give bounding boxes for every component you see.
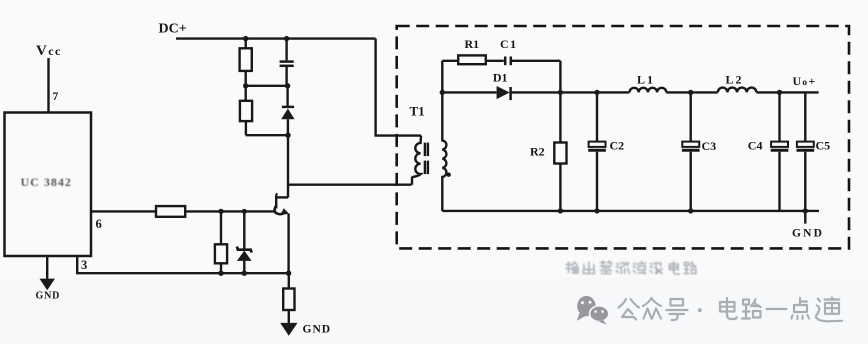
- wire drain to transformer primary bottom: [288, 183, 412, 185]
- watermark char 一: [767, 308, 787, 310]
- svg-text:7: 7: [53, 91, 59, 103]
- svg-text:Vcc: Vcc: [36, 43, 62, 59]
- wire DC+ rail: [176, 37, 376, 39]
- capacitor C3: [682, 92, 700, 210]
- caption char 流: [616, 263, 629, 274]
- node gate branch junction: [218, 209, 223, 214]
- node C4 top: [777, 90, 782, 95]
- resistor R1: [458, 55, 486, 64]
- wire clamp node to drain: [287, 135, 289, 197]
- node clamp bottom junction: [285, 133, 290, 138]
- wire C1 to right drop: [511, 60, 560, 62]
- wire clamp middle node: [246, 85, 288, 87]
- wire rail L2 to output: [756, 91, 818, 93]
- wire snubber right drop: [559, 61, 561, 93]
- node rail clamp-resistor junction: [243, 36, 248, 41]
- watermark char 电: [726, 298, 728, 315]
- wire R2 bottom lead: [559, 164, 561, 211]
- wire clamp diode bottom lead: [287, 119, 289, 135]
- wire gate resistor to transistor gate: [185, 210, 276, 212]
- wire pulldown resistor bottom lead: [220, 263, 222, 273]
- wire clamp cap top lead: [285, 39, 287, 61]
- wire snubber left: [441, 61, 443, 93]
- caption 输出整流滤波电路 (blurred): [566, 261, 696, 274]
- watermark dot: [698, 308, 702, 312]
- wire clamp resistor B bottom lead: [245, 121, 247, 135]
- node rail clamp-cap junction: [284, 36, 289, 41]
- watermark strip tint: [0, 278, 868, 344]
- wire zener bottom lead: [243, 261, 245, 273]
- svg-text:C3: C3: [702, 139, 717, 153]
- inductor L1: [630, 88, 667, 93]
- node C2 top: [594, 90, 599, 95]
- wire secondary top to D1: [442, 91, 496, 93]
- node bottom R2: [558, 208, 563, 213]
- node bottom C3: [688, 208, 693, 213]
- svg-text:3: 3: [81, 258, 87, 272]
- node zener-bottom junction: [242, 271, 247, 276]
- wire R1 to C1: [486, 60, 504, 62]
- caption char 整: [600, 261, 612, 274]
- node zener top junction: [242, 209, 247, 214]
- caption char 出: [583, 262, 594, 274]
- capacitor clamp: [280, 60, 294, 63]
- wire clamp resistor A top lead: [244, 39, 246, 49]
- node source junction: [286, 271, 291, 276]
- svg-text:C4: C4: [748, 139, 763, 153]
- node clamp mid right: [285, 83, 290, 88]
- resistor gate series: [156, 206, 185, 217]
- wire snubber to R1: [442, 60, 458, 62]
- wire clamp resistor B top lead: [244, 86, 246, 101]
- wire source resistor bottom lead: [288, 310, 290, 323]
- wire clamp resistor A bottom lead: [244, 71, 246, 86]
- resistor source sense: [283, 289, 294, 311]
- wire clamp bottom node: [246, 134, 288, 136]
- wire clamp cap bottom lead: [285, 67, 287, 86]
- svg-text:DC+: DC+: [159, 22, 187, 37]
- resistor clamp B: [240, 101, 252, 121]
- node C3 top: [688, 90, 693, 95]
- watermark char 号: [671, 299, 684, 306]
- caption char 电: [670, 262, 680, 275]
- svg-text:GND: GND: [792, 228, 824, 240]
- caption char 波: [650, 263, 662, 274]
- ground arrow under U1: [40, 279, 56, 291]
- wire DC+ drop to transformer primary: [376, 39, 421, 136]
- diode clamp: [282, 106, 294, 109]
- ground arrow bottom: [280, 323, 297, 336]
- svg-text:R1: R1: [465, 37, 480, 51]
- svg-text:GND: GND: [303, 324, 332, 336]
- node pulldown-bottom junction: [218, 271, 223, 276]
- inductor L2: [718, 88, 757, 93]
- node D1 cathode junction: [558, 90, 563, 95]
- diode D1: [497, 86, 510, 99]
- wire rail L1 to L2: [666, 91, 718, 93]
- watermark char 点: [800, 298, 807, 305]
- watermark char 众: [643, 298, 652, 306]
- watermark text 公众号·电路一点通: [619, 298, 843, 322]
- caption char 滤: [633, 262, 646, 274]
- caption char 输: [566, 262, 578, 273]
- node clamp mid left: [243, 83, 248, 88]
- svg-text:6: 6: [96, 217, 102, 231]
- op-amp U1 UC3842 controller box: [5, 113, 92, 257]
- svg-text:C1: C1: [500, 37, 518, 51]
- capacitor C2: [588, 92, 606, 210]
- watermark char 路: [743, 300, 750, 312]
- resistor gate pulldown: [215, 244, 227, 263]
- capacitor C5: [797, 92, 815, 223]
- zener diode gate clamp: [237, 247, 252, 253]
- node bottom C2: [594, 208, 599, 213]
- node bottom C5/GND: [803, 208, 808, 213]
- svg-text:UC 3842: UC 3842: [21, 175, 72, 189]
- svg-text:D1: D1: [493, 71, 508, 85]
- wire D1 cathode to rail: [511, 91, 630, 93]
- capacitor C4: [771, 92, 789, 210]
- wire Vcc to pin 7: [47, 58, 49, 113]
- svg-text:L2: L2: [726, 72, 744, 86]
- watermark char 通: [818, 299, 820, 302]
- wire pin 3 current sense to source node: [77, 256, 288, 273]
- svg-text:R2: R2: [530, 145, 545, 159]
- wire pin 6 output to gate resistor: [91, 210, 156, 212]
- wire source resistor top lead: [288, 273, 290, 288]
- ground lead under U1: [46, 256, 48, 279]
- watermark wechat icon: [577, 296, 609, 325]
- transistor Q1 MOSFET: [275, 194, 289, 216]
- dashed box output filter section: [397, 26, 849, 248]
- caption char 路: [684, 262, 696, 274]
- svg-text:T1: T1: [410, 104, 425, 119]
- transformer T1: [412, 92, 451, 210]
- svg-text:C5: C5: [816, 139, 831, 153]
- svg-text:GND: GND: [36, 291, 61, 302]
- wire clamp diode top lead: [286, 86, 288, 106]
- wire R2 top lead: [559, 92, 561, 142]
- watermark char 公: [619, 299, 627, 308]
- capacitor C1: [504, 57, 507, 66]
- wire pulldown resistor top lead: [220, 211, 222, 244]
- node secondary top junction: [440, 90, 445, 95]
- wire zener top lead: [243, 211, 245, 248]
- svg-text:C2: C2: [610, 139, 625, 153]
- wire bottom rail: [442, 210, 819, 212]
- wire source down: [287, 214, 289, 274]
- svg-text:L1: L1: [637, 72, 655, 86]
- resistor R2: [554, 143, 566, 164]
- resistor clamp A: [240, 48, 252, 71]
